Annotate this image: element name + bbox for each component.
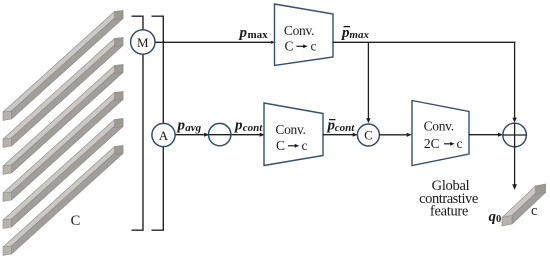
adder circle (circled plus): [503, 123, 527, 147]
conv block U3 (Conv. 2C->c): [412, 101, 469, 166]
bracket 1: [132, 16, 144, 230]
wire concat to Conv3: [379, 134, 408, 136]
svg-text:Conv.: Conv.: [424, 119, 454, 134]
output bar q0: [502, 184, 546, 226]
svg-text:p: p: [176, 118, 186, 134]
svg-text:p: p: [233, 118, 243, 134]
conv block U2 (Conv. C->c): [264, 103, 323, 166]
svg-text:cont: cont: [243, 122, 263, 134]
svg-text:c: c: [457, 136, 463, 151]
svg-text:c: c: [531, 203, 537, 219]
feature map bar 5: [3, 119, 123, 229]
wire M to Conv1: [155, 41, 272, 43]
svg-text:0: 0: [496, 214, 501, 225]
svg-text:feature: feature: [430, 203, 468, 219]
svg-text:C: C: [364, 128, 373, 143]
svg-text:avg: avg: [185, 122, 201, 134]
wire down to adder: [514, 42, 516, 119]
label p~cont: [329, 119, 336, 121]
wire Conv2 to concat C: [323, 134, 355, 136]
svg-text:cont: cont: [335, 122, 356, 134]
svg-text:C: C: [71, 213, 81, 229]
svg-text:A: A: [159, 128, 169, 143]
wire A row through empty circle to Conv2: [175, 134, 262, 136]
feature map bar 4: [3, 92, 123, 202]
svg-text:C: C: [284, 39, 293, 54]
feature map bar 6: [3, 146, 123, 256]
wire Conv3 to adder: [469, 134, 500, 136]
label p~max: [344, 26, 351, 28]
feature map bar 1: [3, 11, 123, 121]
pooling circle M: [131, 30, 155, 54]
conv block U1 (Conv. C->c): [275, 4, 334, 66]
svg-text:c: c: [302, 138, 308, 153]
bracket 2: [152, 16, 164, 230]
feature map bar 3: [3, 65, 123, 175]
svg-text:Conv.: Conv.: [275, 122, 305, 137]
svg-text:max: max: [349, 29, 369, 41]
svg-text:p: p: [238, 25, 248, 41]
wire branch down to concat C: [367, 42, 369, 120]
concat circle C: [357, 124, 379, 146]
wire Conv1 output: [333, 41, 515, 43]
svg-text:2C: 2C: [424, 136, 440, 151]
empty operation circle: [209, 123, 231, 145]
pooling circle A: [152, 123, 175, 146]
svg-text:M: M: [137, 35, 149, 50]
svg-text:C: C: [276, 138, 285, 153]
svg-text:c: c: [311, 39, 317, 54]
feature map bar 2: [3, 38, 123, 148]
svg-text:Conv.: Conv.: [284, 23, 314, 38]
svg-text:max: max: [248, 29, 269, 41]
wire adder down to q0: [514, 147, 516, 187]
